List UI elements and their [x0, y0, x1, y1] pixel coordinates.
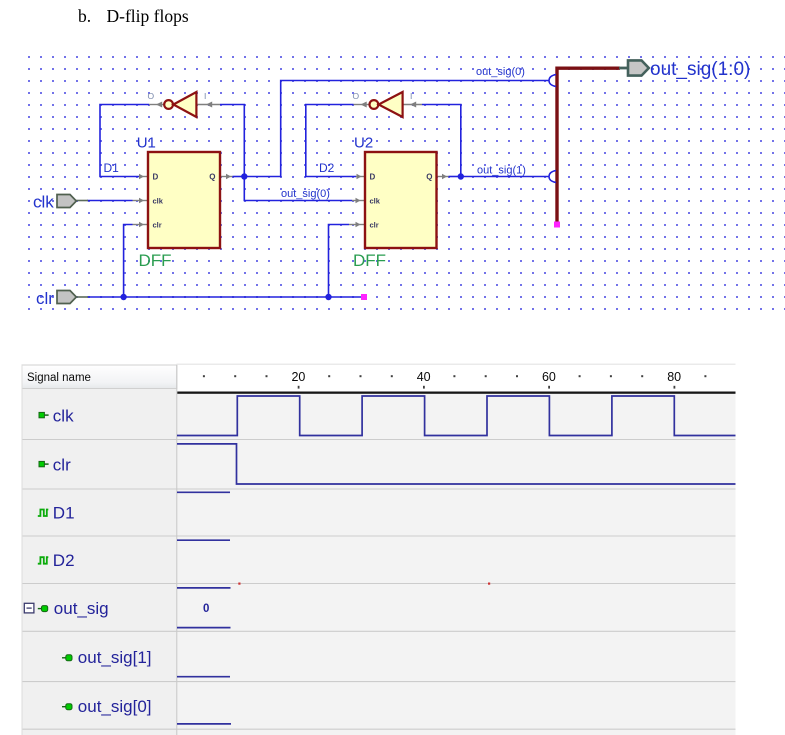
inverter U4 pin label I	[410, 91, 412, 101]
svg-text:0: 0	[203, 603, 209, 615]
wire: inverter U4 output to D2 loop	[306, 105, 356, 177]
net label out_sig(0) mid	[281, 188, 330, 200]
pin stub inverter U3 input	[197, 102, 221, 108]
wire: clr branch to U1 clr	[124, 225, 133, 298]
name column header	[22, 365, 177, 389]
svg-text:D2: D2	[53, 551, 75, 570]
U1 pin label clk	[153, 197, 164, 206]
junction at U2 Q	[458, 173, 464, 179]
wire: clr branch to U2 clr	[329, 225, 350, 298]
signal row label out_sig[0]	[62, 697, 152, 716]
net label out_sig(0) top	[476, 66, 525, 78]
wire: net out_sig(1) to bus	[461, 176, 549, 178]
U2 reference label	[354, 135, 373, 152]
pin stub U1 clk	[133, 198, 149, 204]
svg-text:D1: D1	[53, 503, 75, 522]
panel name column background	[22, 389, 177, 735]
U2 pin label D	[370, 173, 376, 182]
svg-text:out_sig(1): out_sig(1)	[477, 165, 526, 177]
bus tap for out_sig(0)	[549, 75, 556, 87]
net label out_sig(1)	[477, 165, 526, 177]
port out_sig(1:0)	[619, 60, 649, 75]
svg-text:O: O	[353, 91, 360, 101]
panel vertical divider	[176, 365, 178, 735]
bus tap for out_sig(1)	[549, 171, 556, 183]
pin stub inverter U3 output	[149, 102, 165, 108]
flip-flop U1 body	[148, 152, 220, 248]
inverter U3 pin label I	[204, 91, 206, 101]
svg-text:DFF: DFF	[353, 251, 386, 270]
svg-text:D: D	[370, 173, 376, 182]
svg-text:40: 40	[417, 370, 431, 384]
svg-text:I: I	[410, 91, 412, 101]
junction clr / U2 branch	[325, 294, 331, 300]
svg-text:Signal name: Signal name	[27, 372, 91, 384]
svg-text:out_sig[1]: out_sig[1]	[78, 648, 152, 667]
svg-text:clr: clr	[53, 456, 71, 475]
svg-text:out_sig(0): out_sig(0)	[476, 66, 525, 78]
port clr label	[36, 289, 54, 308]
clr net end marker (magenta)	[361, 294, 367, 300]
pin stub U1 D	[139, 174, 148, 180]
svg-text:clr: clr	[370, 221, 379, 230]
U1 reference label	[137, 135, 156, 152]
inverter U3	[164, 92, 196, 117]
page title	[78, 6, 189, 26]
waveform clk	[177, 396, 736, 436]
panel waveform background	[177, 394, 735, 735]
U1 value label DFF	[139, 251, 172, 270]
svg-text:clk: clk	[53, 407, 74, 426]
timeline black base line	[177, 392, 736, 394]
inverter U4	[370, 92, 403, 117]
waveform D1	[177, 491, 230, 493]
inverter U4 pin label O	[353, 91, 360, 101]
pin stub U1 clr	[133, 222, 149, 228]
flip-flop U2 body	[365, 152, 437, 248]
signal row label out_sig[1]	[62, 648, 152, 667]
wire: net out_sig(0) from U1 Q junction up to bus	[244, 81, 549, 177]
signal row label D2	[38, 551, 75, 570]
svg-text:D: D	[153, 173, 159, 182]
wire: clr net horizontal	[87, 296, 361, 298]
inverter U3 pin label O	[148, 91, 155, 101]
svg-text:D-flip flops: D-flip flops	[107, 6, 189, 26]
svg-text:O: O	[148, 91, 155, 101]
wire: U2 Q to junction	[449, 176, 461, 178]
waveform out_sig[0]	[177, 723, 231, 725]
row separators	[22, 440, 736, 730]
U2 value label DFF	[353, 251, 386, 270]
U1 pin label clr	[153, 221, 162, 230]
schematic grid dots	[22, 50, 785, 314]
svg-text:clr: clr	[153, 221, 162, 230]
svg-text:D1: D1	[104, 161, 120, 175]
waveform out_sig[1]	[177, 676, 230, 678]
signal row label D1	[38, 503, 75, 522]
waveform clr	[177, 444, 736, 484]
svg-text:clr: clr	[36, 289, 54, 308]
signal row label clk	[39, 407, 74, 426]
port clk label	[33, 193, 54, 212]
svg-text:b.: b.	[78, 6, 91, 26]
svg-text:U2: U2	[354, 135, 373, 152]
pin stub U2 D	[356, 174, 365, 180]
waveform D2	[177, 539, 230, 541]
svg-text:out_sig(1:0): out_sig(1:0)	[650, 59, 750, 80]
panel left border	[21, 365, 23, 735]
svg-text:60: 60	[542, 370, 556, 384]
svg-text:U1: U1	[137, 135, 156, 152]
svg-text:out_sig(0): out_sig(0)	[281, 188, 330, 200]
svg-text:Q: Q	[209, 173, 215, 182]
net label D2	[319, 161, 335, 175]
wire: inverter U3 output to D1 loop	[100, 105, 149, 177]
net label D1	[104, 161, 120, 175]
pin stub U1 Q	[221, 174, 233, 180]
port out_sig(1:0) label	[650, 59, 750, 80]
wire: U2 Q junction up to inverter U4 input	[422, 105, 461, 177]
U2 pin label Q	[426, 173, 432, 182]
junction at U1 Q	[241, 173, 247, 179]
port clr	[57, 291, 88, 304]
port clk	[57, 195, 88, 208]
svg-text:clk: clk	[33, 193, 54, 212]
svg-text:D2: D2	[319, 161, 335, 175]
timeline header	[203, 370, 707, 389]
svg-text:DFF: DFF	[139, 251, 172, 270]
wire: junction up to inverter U3 input	[220, 105, 244, 177]
timeline header top border	[177, 363, 736, 365]
U1 pin label D	[153, 173, 159, 182]
pin stub U2 Q	[437, 174, 449, 180]
signal row label clr	[39, 456, 71, 475]
junction clr / U1 branch	[120, 294, 126, 300]
wire: net out_sig(0) from junction down to U2 clk	[244, 177, 352, 201]
pin stub U2 clr	[349, 222, 365, 228]
pin stub inverter U4 output	[354, 102, 370, 108]
svg-text:clk: clk	[370, 197, 381, 206]
U1 pin label Q	[209, 173, 215, 182]
svg-text:80: 80	[667, 370, 681, 384]
wire: clk port to U1 clk	[87, 200, 133, 202]
wire: U1 Q to junction	[233, 176, 245, 178]
svg-text:clk: clk	[153, 197, 164, 206]
bus out_sig(1:0)	[557, 68, 620, 224]
waveform out_sig bus	[177, 583, 490, 628]
U2 pin label clr	[370, 221, 379, 230]
signal row label out_sig (group)	[24, 599, 108, 618]
svg-text:20: 20	[291, 370, 305, 384]
pin stub inverter U4 input	[403, 102, 423, 108]
svg-text:Q: Q	[426, 173, 432, 182]
bus end marker (magenta)	[554, 222, 560, 228]
svg-text:out_sig: out_sig	[54, 599, 109, 618]
pin stub U2 clk	[352, 198, 365, 204]
svg-text:out_sig[0]: out_sig[0]	[78, 697, 152, 716]
svg-text:I: I	[204, 91, 206, 101]
U2 pin label clk	[370, 197, 381, 206]
